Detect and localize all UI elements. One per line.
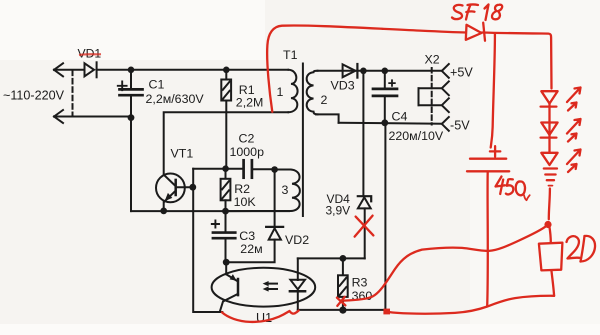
diode VD1 [85, 62, 97, 77]
node dot VD4 tap [360, 68, 367, 75]
svg-text:1: 1 [277, 85, 284, 99]
red LED chain cathode dashes [544, 169, 557, 186]
svg-text:3: 3 [282, 183, 289, 197]
node dot C4 top [382, 68, 389, 75]
svg-text:X2: X2 [425, 53, 440, 67]
red capacitor 450v plus [490, 146, 500, 156]
red bottom wire to 2D [387, 296, 554, 314]
X2 dashed boundary [431, 68, 433, 125]
T1 core [302, 64, 304, 217]
node dot C3/VD2/opto [223, 259, 230, 266]
svg-text:C4: C4 [392, 109, 408, 123]
node dot R1 top [223, 67, 230, 74]
resistor R1 [221, 70, 231, 169]
red capacitor 450v plates [470, 158, 506, 160]
T1 secondary winding 2 [307, 71, 318, 115]
svg-text:R2: R2 [234, 182, 250, 196]
X2 pin mid1 with jumper [419, 81, 449, 95]
svg-text:VD2: VD2 [285, 233, 309, 247]
X2 pin -5V [442, 117, 449, 131]
wire top rail primary [97, 69, 288, 71]
red junction dot [544, 221, 551, 228]
svg-text:VT1: VT1 [171, 147, 194, 161]
wire bottom rail primary [131, 210, 289, 212]
red wire cap down to bottom [486, 172, 489, 306]
X2 pin mid2 with jumper [419, 98, 449, 112]
label 450v (red) [496, 177, 530, 201]
red LED D3 [541, 153, 557, 165]
T1 feedback winding 3 [291, 170, 300, 212]
red asterisk at R3 bottom [337, 297, 346, 306]
capacitor C3 [212, 211, 236, 262]
VT1 emitter arrowhead [165, 193, 173, 201]
capacitor C1 [118, 70, 143, 118]
svg-text:VD3: VD3 [331, 78, 355, 92]
svg-text:-5V: -5V [450, 118, 470, 132]
red LED D3 arrows [567, 150, 581, 173]
svg-text:2,2м/630V: 2,2м/630V [146, 92, 205, 106]
wire node line base/R1/C2 [193, 168, 243, 170]
node dot C2/VD2/winding3 [271, 166, 278, 173]
node dot R2 bottom [222, 208, 229, 215]
U1 LED [290, 258, 305, 310]
red wire branch down to 450 cap [491, 34, 495, 148]
wire winding3 bottom joins emitter rail [225, 210, 290, 212]
svg-text:C2: C2 [239, 131, 255, 145]
svg-text:220м/10V: 220м/10V [389, 129, 444, 143]
wire secondary ground rail [339, 123, 442, 124]
wire secondary top rail [318, 70, 442, 72]
U1 phototransistor [220, 262, 238, 312]
node dot C1 bottom [128, 114, 135, 121]
svg-text:1000p: 1000p [230, 145, 265, 159]
wire C1 down to bottom rail [130, 118, 132, 212]
svg-text:~110-220V: ~110-220V [3, 89, 65, 103]
diode VD3 [343, 64, 358, 78]
svg-text:C1: C1 [149, 78, 165, 92]
node dot R3 bottom [339, 307, 346, 314]
red diode SF18 [466, 23, 485, 41]
wire winding1 bottom to VT1 collector [164, 112, 288, 174]
resistor R2 [221, 169, 231, 211]
zener VD4 [358, 71, 371, 259]
wire winding2 bottom step [316, 114, 339, 122]
red sweep wire R3 to LED junction [344, 226, 547, 301]
svg-text:2,2M: 2,2M [236, 96, 264, 110]
T1 primary winding 1 [289, 70, 298, 112]
red LED D1 arrows [567, 88, 581, 111]
svg-text:3,9V: 3,9V [326, 204, 351, 218]
U1 photo arrowhead [230, 274, 237, 281]
red resistor 2D box [539, 243, 563, 271]
svg-text:22м: 22м [240, 242, 262, 256]
red smudge over VD1 [79, 53, 101, 56]
svg-text:C3: C3 [239, 229, 255, 243]
svg-text:10K: 10K [234, 195, 257, 209]
red mod wire from primary to SF18 [267, 26, 466, 112]
svg-text:+5V: +5V [450, 65, 473, 79]
wire base node vertical [193, 169, 222, 312]
U1 light arrows [266, 284, 277, 289]
node dot VT1 base [189, 184, 196, 191]
resistor R3 [338, 258, 348, 310]
red wire diode to corner [482, 33, 552, 89]
X2 pin +5V [442, 64, 449, 78]
red X over VD4 [355, 216, 374, 237]
svg-text:2: 2 [321, 93, 328, 107]
red wire 2D box down [551, 270, 554, 296]
diode VD2 [226, 170, 283, 263]
wire winding3 top [275, 169, 291, 171]
svg-text:R3: R3 [352, 275, 368, 289]
optocoupler U1 [212, 268, 316, 307]
red LED D2 [541, 123, 558, 138]
capacitor C2 [244, 160, 275, 177]
label 2D (red) [567, 236, 596, 262]
wire bottom input line [54, 110, 131, 123]
wire dashed mains link [72, 71, 74, 117]
capacitor C4 [373, 71, 397, 123]
X2 jumper vertical [418, 88, 420, 105]
node dot R1/R2/C2 [222, 165, 229, 172]
red wire junction to 2D box [549, 226, 551, 243]
node dot R3 top [340, 255, 347, 262]
red underline below U1 [222, 311, 299, 322]
transistor VT1 [156, 174, 193, 211]
wire top input line [54, 63, 85, 76]
red square at bottom corner [383, 309, 390, 315]
node dot top rail / C1 [128, 67, 135, 74]
node dot C4 bottom [381, 119, 388, 126]
red LED D2 arrows [567, 119, 581, 142]
node dot emitter on rail [160, 208, 167, 215]
red LED chain vertical wire [548, 104, 550, 153]
label SF 18 (red handwritten) [452, 4, 502, 20]
red wire dashes to junction [549, 189, 550, 220]
wire bottom loop [298, 123, 386, 310]
svg-text:T1: T1 [283, 48, 298, 62]
wire R3/VD4/opto-LED node line [298, 257, 365, 259]
red LED D1 [541, 91, 558, 106]
